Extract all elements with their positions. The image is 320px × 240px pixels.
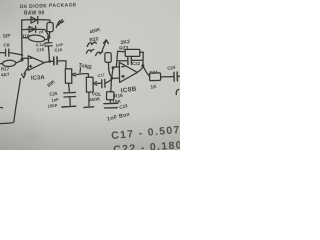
capacitor C24 — [174, 72, 180, 81]
junction blob input node — [20, 58, 23, 61]
faint smudge — [24, 133, 42, 141]
ground bar under C25 — [62, 105, 76, 108]
potentiometer R22 box — [105, 53, 111, 63]
resistor R18 oval — [22, 34, 49, 42]
wire: top branch of diode package — [22, 19, 50, 22]
capacitor C8 — [0, 49, 22, 56]
capacitor C22 — [118, 57, 143, 64]
diode D6b — [29, 26, 36, 32]
ground bar under volume — [84, 106, 94, 109]
junction dot output IC8B — [141, 64, 144, 67]
bracket mark right edge — [176, 89, 179, 94]
tick on left edge — [0, 106, 3, 109]
wire R24 to C24 — [161, 76, 174, 78]
svg-text:BAW 99: BAW 99 — [24, 11, 44, 17]
resistor R17 oval — [0, 60, 21, 67]
op-amp IC3A — [28, 56, 44, 71]
capacitor C15 in rail — [45, 39, 52, 60]
svg-text:C25: C25 — [49, 91, 58, 97]
rail between inputs — [112, 68, 113, 77]
svg-text:2K2: 2K2 — [120, 39, 130, 46]
wiper arrow R22 — [102, 40, 109, 52]
wire to volume box — [87, 74, 89, 77]
paper background — [0, 0, 180, 150]
resistor (vertical box) right of diode package — [47, 23, 53, 32]
wiper arrow into Volume box — [94, 82, 101, 86]
feedback right drop — [142, 52, 144, 65]
wire plus node down to R19 — [110, 79, 113, 92]
value scribble 4k7 — [56, 20, 64, 28]
junction dot plus node — [110, 77, 113, 80]
wire op-amp output — [44, 61, 49, 64]
diode D6a — [31, 16, 38, 23]
resistor R23 box — [118, 49, 143, 56]
capacitor C25 — [64, 92, 76, 105]
svg-text:C8: C8 — [3, 42, 9, 48]
wire to inverting input IC8B — [113, 66, 119, 68]
svg-text:150P: 150P — [47, 103, 57, 109]
wire: second diode branch — [22, 29, 49, 36]
svg-text:4K7: 4K7 — [1, 72, 10, 78]
svg-text:R19: R19 — [114, 93, 123, 99]
wire: long ground run to left edge — [0, 79, 20, 124]
junction dot C8/rail — [21, 54, 23, 56]
svg-text:1nF: 1nF — [51, 97, 60, 103]
scribble a — [87, 42, 96, 46]
svg-text:IC3A: IC3A — [31, 75, 46, 82]
resistor R24 box — [149, 73, 160, 81]
capacitor C16 — [50, 57, 66, 69]
wire: left rail of diode package — [21, 20, 23, 61]
wire output to R24 — [143, 66, 150, 76]
scribble b — [86, 49, 94, 53]
wire volume box to ground — [88, 92, 90, 106]
wire: box to junction — [48, 32, 51, 37]
ground arrow at + input — [22, 67, 29, 78]
wire to inverting input — [22, 57, 28, 59]
wire R22 to rail — [108, 62, 111, 76]
potentiometer Tone box — [65, 69, 72, 84]
wiper arrow into Tone box — [72, 73, 88, 76]
wire R19 to C23 — [109, 100, 111, 103]
junction blob — [47, 36, 50, 39]
capacitor C23 — [104, 103, 118, 108]
junction dot minus node — [112, 66, 115, 69]
arrow tail from Tone label — [79, 68, 82, 73]
junction dot output node — [48, 60, 51, 63]
potentiometer Volume box — [86, 77, 93, 92]
feedback left stub — [116, 51, 117, 66]
op-amp IC8B — [119, 62, 137, 82]
svg-text:C22: C22 — [132, 61, 141, 66]
wire IC8B output — [137, 67, 143, 72]
svg-text:S/P: S/P — [3, 33, 12, 40]
svg-text:C16: C16 — [54, 47, 63, 53]
capacitor C17 — [102, 79, 113, 88]
wire to non-inverting input IC8B — [112, 77, 119, 79]
wire: right drop from top branch — [49, 20, 51, 22]
svg-text:R17: R17 — [1, 67, 10, 72]
resistor R19 box — [107, 92, 114, 100]
wire box1 to C25 — [68, 83, 71, 91]
scribble c — [96, 52, 103, 56]
